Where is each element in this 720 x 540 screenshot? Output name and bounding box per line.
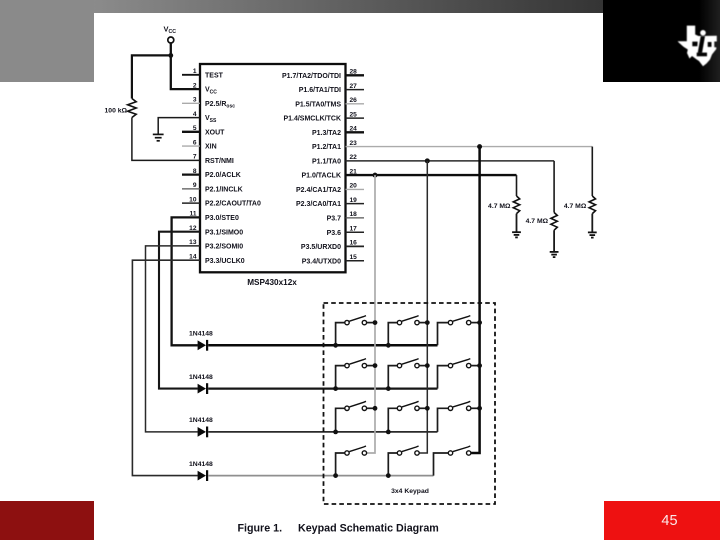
- switch S42 keypad key row4 col2: [386, 446, 419, 478]
- svg-text:P1.3/TA2: P1.3/TA2: [312, 130, 341, 137]
- svg-text:P1.4/SMCLK/TCK: P1.4/SMCLK/TCK: [283, 116, 341, 123]
- switch S32 keypad key row3 col2: [386, 401, 430, 434]
- svg-text:P1.1/TA0: P1.1/TA0: [312, 159, 341, 166]
- pin label P3.6: [327, 230, 342, 237]
- svg-text:MSP430x12x: MSP430x12x: [247, 278, 297, 287]
- switch S23 keypad key row2 col3: [438, 359, 483, 389]
- svg-text:28: 28: [350, 69, 358, 76]
- svg-text:P3.3/UCLK0: P3.3/UCLK0: [205, 258, 245, 265]
- TI logo: [670, 20, 720, 70]
- wire keypad column 1 net: [367, 175, 375, 453]
- pin label P1.6/TA1/TDI: [299, 87, 341, 94]
- pin number 21: [350, 168, 358, 175]
- svg-text:P3.1/SIMO0: P3.1/SIMO0: [205, 229, 243, 236]
- svg-text:27: 27: [350, 83, 358, 90]
- page number 45: [604, 513, 720, 533]
- svg-text:13: 13: [189, 239, 197, 246]
- svg-text:P1.2/TA1: P1.2/TA1: [312, 144, 341, 151]
- svg-text:P2.4/CA1/TA2: P2.4/CA1/TA2: [296, 187, 341, 194]
- pin number 14: [189, 253, 197, 260]
- svg-text:Keypad Schematic Diagram: Keypad Schematic Diagram: [298, 523, 439, 535]
- svg-text:5: 5: [193, 125, 197, 132]
- svg-text:22: 22: [350, 154, 358, 161]
- wire pin 12 to diode D2 anode: [159, 232, 200, 389]
- svg-text:7: 7: [193, 154, 197, 161]
- ground below R2: [512, 232, 521, 237]
- pin label P1.0/TACLK: [301, 173, 341, 180]
- pin label P2.2/CAOUT/TA0: [205, 201, 261, 208]
- pin 5 stub: [182, 131, 200, 133]
- wire pin 22 P1.1/TA0 net row: [346, 160, 555, 162]
- wire keypad row 4 net: [208, 475, 433, 477]
- svg-text:4: 4: [193, 111, 197, 118]
- pin label P3.7: [327, 216, 342, 223]
- wire to resistor R3: [553, 161, 555, 213]
- label MSP430x12x: [247, 278, 297, 287]
- value label 1N4148 for D1: [189, 331, 213, 338]
- wire VCC node to resistor R1: [132, 55, 171, 98]
- pin number 3: [193, 97, 197, 104]
- svg-text:P3.0/STE0: P3.0/STE0: [205, 215, 239, 222]
- svg-text:1: 1: [193, 68, 197, 75]
- pin label P3.0/STE0: [205, 215, 239, 222]
- pin 10 stub: [182, 202, 200, 204]
- svg-text:TEST: TEST: [205, 72, 224, 79]
- wire R3 to ground: [553, 230, 555, 252]
- svg-text:9: 9: [193, 182, 197, 189]
- pin number 18: [350, 211, 358, 218]
- pin number 22: [350, 154, 358, 161]
- svg-text:1N4148: 1N4148: [189, 417, 213, 424]
- pin label P3.2/SOMI0: [205, 244, 243, 251]
- label 3x4 Keypad: [391, 488, 429, 495]
- pin 17 stub: [346, 231, 365, 233]
- pin label P2.1/INCLK: [205, 187, 243, 194]
- wire to resistor R4: [591, 147, 593, 196]
- pin label P1.5/TA0/TMS: [295, 101, 341, 108]
- pin label VCC: [205, 87, 217, 96]
- switch S11 keypad key row1 col1: [333, 316, 377, 348]
- pin number 6: [193, 139, 197, 146]
- pin label P2.0/ACLK: [205, 172, 241, 179]
- svg-text:P2.5/Rosc: P2.5/Rosc: [205, 101, 235, 110]
- ground below R4: [588, 232, 597, 237]
- svg-text:23: 23: [350, 140, 358, 147]
- value label 1N4148 for D4: [189, 461, 213, 468]
- svg-text:P3.6: P3.6: [327, 230, 342, 237]
- svg-text:VSS: VSS: [205, 115, 217, 124]
- value label 100 kOhm: [105, 108, 128, 115]
- wire R4 to ground: [591, 214, 593, 233]
- switch S12 keypad key row1 col2: [386, 316, 430, 348]
- svg-text:1N4148: 1N4148: [189, 331, 213, 338]
- pin label P1.4/SMCLK/TCK: [283, 116, 341, 123]
- svg-text:18: 18: [350, 211, 358, 218]
- top gradient banner: [93, 0, 603, 13]
- pin number 11: [190, 211, 197, 218]
- pin label P3.3/UCLK0: [205, 258, 245, 265]
- pin 1 stub: [182, 74, 200, 76]
- junction pin21 / keypad column 1: [373, 173, 378, 178]
- keypad module dashed outline 3x4: [324, 303, 496, 504]
- svg-text:1N4148: 1N4148: [189, 374, 213, 381]
- svg-text:4.7 MΩ: 4.7 MΩ: [564, 203, 587, 210]
- resistor R4 4.7 MOhm: [589, 196, 595, 214]
- pin label P1.1/TA0: [312, 159, 341, 166]
- pin 27 stub: [346, 89, 365, 91]
- pin label P2.4/CA1/TA2: [296, 187, 341, 194]
- diode D2 1N4148: [198, 383, 208, 394]
- svg-text:P1.7/TA2/TDO/TDI: P1.7/TA2/TDO/TDI: [282, 73, 341, 80]
- wire pin 14 to diode D4 anode: [132, 260, 200, 475]
- svg-text:26: 26: [350, 97, 358, 104]
- pin 20 stub: [346, 188, 365, 190]
- svg-text:1N4148: 1N4148: [189, 461, 213, 468]
- pin label P1.2/TA1: [312, 144, 341, 151]
- pin label P1.3/TA2: [312, 130, 341, 137]
- pin number 2: [193, 82, 197, 89]
- pin number 17: [350, 225, 358, 232]
- wire keypad column 3 net: [471, 147, 480, 453]
- svg-text:P3.5/URXD0: P3.5/URXD0: [301, 244, 341, 251]
- svg-text:4.7 MΩ: 4.7 MΩ: [488, 203, 511, 210]
- ground VSS: [153, 134, 164, 140]
- ground below R3: [550, 252, 559, 257]
- pin number 16: [350, 240, 358, 247]
- pin 3 stub: [182, 102, 200, 104]
- wire keypad row 1 net: [208, 344, 437, 347]
- svg-text:VCC: VCC: [205, 87, 217, 96]
- pin number 1: [193, 68, 197, 75]
- wire keypad column 2 net: [419, 161, 427, 453]
- pin label P3.5/URXD0: [301, 244, 341, 251]
- svg-text:P2.1/INCLK: P2.1/INCLK: [205, 187, 243, 194]
- pin number 27: [350, 83, 358, 90]
- resistor R3 4.7 MOhm: [551, 213, 557, 231]
- svg-text:24: 24: [350, 126, 358, 133]
- pin number 28: [350, 69, 358, 76]
- TI logo black box: [603, 0, 720, 82]
- wire to resistor R2: [516, 175, 518, 196]
- pin label P1.7/TA2/TDO/TDI: [282, 73, 341, 80]
- svg-text:25: 25: [350, 111, 358, 118]
- resistor R2 4.7 MOhm: [513, 196, 519, 214]
- pin 6 stub: [182, 145, 200, 147]
- pin 9 stub: [182, 188, 200, 190]
- svg-text:P2.2/CAOUT/TA0: P2.2/CAOUT/TA0: [205, 201, 261, 208]
- VCC terminal circle: [168, 37, 174, 43]
- pin 28 stub: [346, 74, 365, 76]
- pin number 20: [350, 183, 358, 190]
- figure caption: [238, 523, 439, 535]
- switch S41 keypad key row4 col1: [333, 446, 366, 478]
- svg-text:XIN: XIN: [205, 144, 217, 151]
- resistor R1 100 kOhm: [128, 99, 137, 118]
- bottom-right red bar: [604, 501, 720, 540]
- pin label P3.4/UTXD0: [302, 258, 341, 265]
- diode D1 1N4148: [198, 340, 208, 351]
- svg-text:14: 14: [189, 253, 197, 260]
- bottom-left maroon bar: [0, 501, 94, 540]
- switch S13 keypad key row1 col3: [438, 316, 483, 346]
- pin number 13: [189, 239, 197, 246]
- wire pin 23 P1.2/TA1 net row: [346, 146, 593, 148]
- gray corner block: [0, 0, 94, 82]
- wire pin 13 to diode D3 anode: [146, 246, 201, 432]
- svg-text:8: 8: [193, 168, 197, 175]
- pin number 9: [193, 182, 197, 189]
- pin number 23: [350, 140, 358, 147]
- wire keypad row 2 net: [208, 387, 437, 389]
- switch S31 keypad key row3 col1: [333, 401, 377, 434]
- value label 1N4148 for D3: [189, 417, 213, 424]
- svg-text:P3.7: P3.7: [327, 216, 342, 223]
- svg-text:20: 20: [350, 183, 358, 190]
- svg-text:P1.6/TA1/TDI: P1.6/TA1/TDI: [299, 87, 341, 94]
- svg-text:15: 15: [350, 254, 358, 261]
- value label 4.7 MOhm for R4: [564, 203, 587, 210]
- pin number 24: [350, 126, 358, 133]
- svg-text:17: 17: [350, 225, 358, 232]
- svg-text:RST/NMI: RST/NMI: [205, 158, 234, 165]
- wire VCC to pin 2: [171, 43, 200, 89]
- diode D3 1N4148: [198, 427, 208, 438]
- wire R1 to pin 7 RST/NMI: [132, 118, 200, 161]
- pin number 12: [189, 225, 197, 232]
- svg-text:P1.5/TA0/TMS: P1.5/TA0/TMS: [295, 101, 341, 108]
- pin label P2.3/CA0/TA1: [296, 201, 341, 208]
- pin 26 stub: [346, 103, 365, 105]
- switch S21 keypad key row2 col1: [333, 359, 377, 391]
- wire R2 to ground: [516, 214, 518, 233]
- svg-text:100 kΩ: 100 kΩ: [105, 108, 128, 115]
- svg-text:4.7 MΩ: 4.7 MΩ: [526, 218, 549, 225]
- pin number 25: [350, 111, 358, 118]
- svg-text:19: 19: [350, 197, 358, 204]
- pin 8 stub: [182, 173, 200, 175]
- svg-text:XOUT: XOUT: [205, 129, 225, 136]
- diode D4 1N4148: [198, 470, 208, 481]
- pin number 8: [193, 168, 197, 175]
- pin 15 stub: [346, 260, 365, 262]
- svg-text:P3.4/UTXD0: P3.4/UTXD0: [302, 258, 341, 265]
- svg-text:P2.0/ACLK: P2.0/ACLK: [205, 172, 241, 179]
- pin 24 stub: [346, 131, 365, 133]
- pin number 19: [350, 197, 358, 204]
- pin number 4: [193, 111, 197, 118]
- junction pin22 / keypad column 2: [425, 158, 430, 163]
- pin 16 stub: [346, 245, 365, 247]
- svg-text:3x4 Keypad: 3x4 Keypad: [391, 488, 429, 495]
- svg-text:P2.3/CA0/TA1: P2.3/CA0/TA1: [296, 201, 341, 208]
- pin number 15: [350, 254, 358, 261]
- switch S33 keypad key row3 col3: [438, 401, 483, 432]
- junction pin23 / keypad column 3: [477, 144, 482, 149]
- pin number 26: [350, 97, 358, 104]
- wire pin 4 VSS to ground: [158, 118, 200, 135]
- pin label RST/NMI: [205, 158, 234, 165]
- value label 4.7 MOhm for R2: [488, 203, 511, 210]
- wire pin 21 P1.0/TACLK net row: [346, 174, 517, 176]
- junction VCC node: [168, 53, 173, 58]
- svg-text:16: 16: [350, 240, 358, 247]
- svg-text:10: 10: [189, 196, 197, 203]
- pin number 5: [193, 125, 197, 132]
- pin number 10: [189, 196, 197, 203]
- svg-text:Figure 1.: Figure 1.: [238, 523, 283, 535]
- value label 4.7 MOhm for R3: [526, 218, 549, 225]
- svg-text:VCC: VCC: [164, 25, 177, 36]
- value label 1N4148 for D2: [189, 374, 213, 381]
- pin number 7: [193, 154, 197, 161]
- svg-text:3: 3: [193, 97, 197, 104]
- pin label VSS: [205, 115, 217, 124]
- op-amp U1 MSP430x12x chip body: [200, 64, 346, 272]
- node VCC supply label: [164, 25, 177, 36]
- pin 18 stub: [346, 217, 365, 219]
- wire pin 11 to diode D1 anode: [172, 217, 200, 345]
- switch S43 keypad key row4 col3: [434, 446, 471, 476]
- wire keypad row 3 net: [208, 431, 437, 433]
- switch S22 keypad key row2 col2: [386, 359, 430, 391]
- pin 19 stub: [346, 203, 365, 205]
- pin 25 stub: [346, 117, 365, 119]
- pin label P3.1/SIMO0: [205, 229, 243, 236]
- pin label XIN: [205, 144, 217, 151]
- pin label P2.5/Rosc: [205, 101, 235, 110]
- svg-text:P3.2/SOMI0: P3.2/SOMI0: [205, 244, 243, 251]
- pin label XOUT: [205, 129, 225, 136]
- svg-text:6: 6: [193, 139, 197, 146]
- svg-text:P1.0/TACLK: P1.0/TACLK: [301, 173, 341, 180]
- pin label TEST: [205, 72, 224, 79]
